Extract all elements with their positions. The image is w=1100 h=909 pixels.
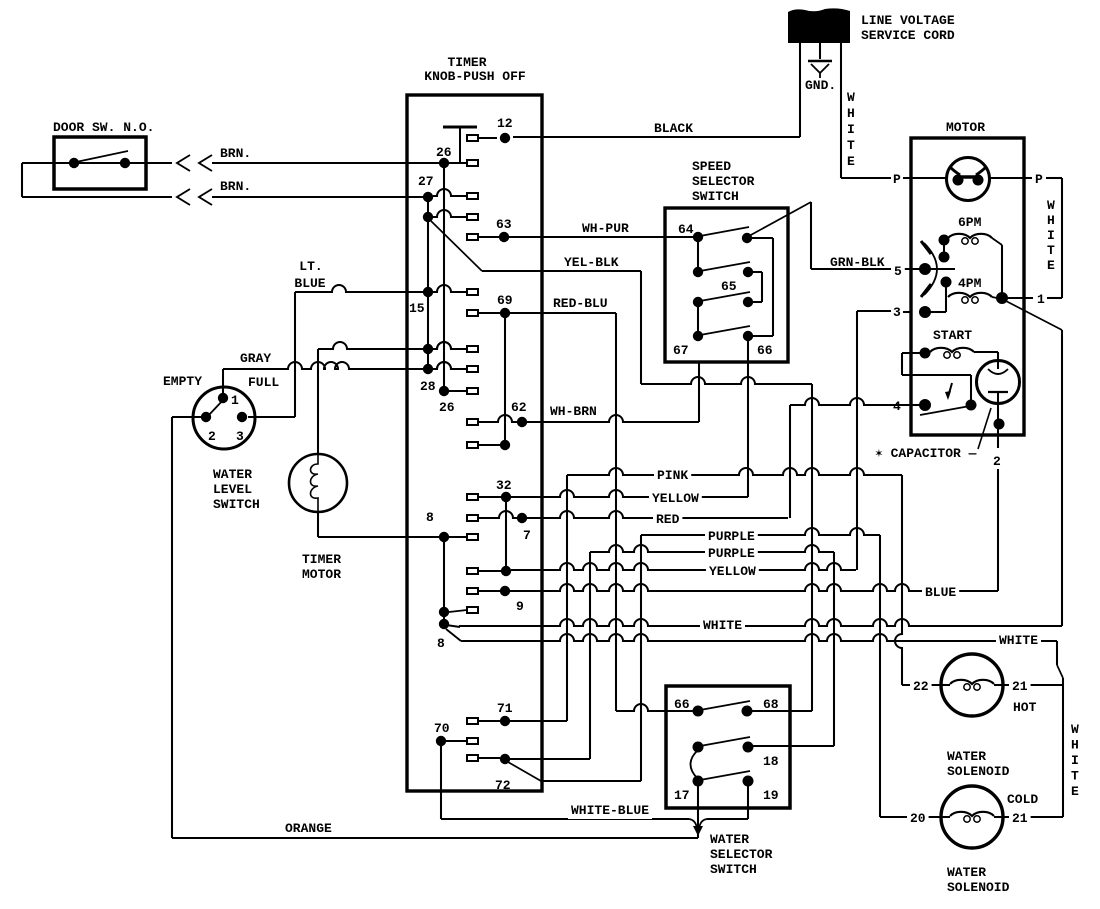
label motor pin P left xyxy=(893,172,901,187)
label pin 32 xyxy=(496,478,512,493)
motor protector contacts xyxy=(950,167,986,186)
wire 3 dash xyxy=(903,311,911,313)
svg-text:70: 70 xyxy=(434,721,450,736)
wire 2 lead xyxy=(997,429,999,448)
timer node 32 xyxy=(501,492,511,502)
label BLACK xyxy=(654,121,693,136)
wire diagonal to YEL-BLK xyxy=(431,221,482,271)
svg-text:4: 4 xyxy=(893,399,901,414)
svg-text:SELECTOR: SELECTOR xyxy=(710,847,773,862)
wire WHITE-BLUE drop xyxy=(440,746,442,819)
svg-text:71: 71 xyxy=(497,701,513,716)
svg-text:22: 22 xyxy=(913,679,929,694)
svg-text:19: 19 xyxy=(763,788,779,803)
motor speed selector arc xyxy=(921,241,937,297)
svg-text:17: 17 xyxy=(674,788,690,803)
label pin 22 xyxy=(910,678,932,695)
speed selector blade row3 xyxy=(700,292,750,301)
svg-text:HOT: HOT xyxy=(1013,700,1037,715)
svg-text:2: 2 xyxy=(208,429,216,444)
speed selector blade row2 xyxy=(700,262,750,271)
svg-text:6PM: 6PM xyxy=(958,215,982,230)
wire PURPLE1 riser xyxy=(640,535,642,781)
svg-text:I: I xyxy=(847,122,855,137)
label pin 66 xyxy=(757,343,773,358)
label pin 71 xyxy=(497,701,513,716)
wire PINK row xyxy=(567,468,902,475)
wire terminal to node 32 xyxy=(478,496,501,498)
capacitor straight plate xyxy=(988,391,1008,393)
wire row 711 right xyxy=(752,710,812,712)
wire node217 to terminal xyxy=(433,210,467,217)
wire WHITE1 row xyxy=(459,619,1062,626)
label pin 12 xyxy=(497,116,513,131)
label WHITE 1 xyxy=(700,617,745,634)
label motor pin 5 xyxy=(891,263,905,280)
svg-text:WHITE-BLUE: WHITE-BLUE xyxy=(571,803,649,818)
label motor pin 4 xyxy=(890,398,904,415)
svg-text:20: 20 xyxy=(910,811,926,826)
water selector blade row2 xyxy=(700,737,750,746)
label WHITE-BLUE xyxy=(568,802,652,819)
wire BRN upper row xyxy=(22,162,444,164)
capacitor top lead xyxy=(997,353,999,369)
svg-text:66: 66 xyxy=(757,343,773,358)
wire terminal to node 69 xyxy=(478,312,500,314)
label WHITE vertical solenoid xyxy=(1071,722,1079,799)
svg-text:68: 68 xyxy=(763,697,779,712)
svg-text:E: E xyxy=(1047,258,1055,273)
svg-text:7: 7 xyxy=(523,528,531,543)
water selector blade row3 xyxy=(700,771,750,780)
label pin 9 xyxy=(516,599,524,614)
svg-text:BRN.: BRN. xyxy=(220,146,251,161)
svg-text:WH-PUR: WH-PUR xyxy=(582,221,629,236)
label WH-PUR xyxy=(582,221,629,236)
svg-text:KNOB-PUSH OFF: KNOB-PUSH OFF xyxy=(424,69,526,84)
wire PINK drop to solenoid 22 xyxy=(895,475,902,685)
wire node349 to terminal xyxy=(433,342,467,349)
label pin 21 hot xyxy=(1009,678,1031,695)
timer terminal contact y=610 xyxy=(467,607,478,613)
svg-text:21: 21 xyxy=(1012,811,1028,826)
timer node 8b xyxy=(439,607,449,617)
svg-text:EMPTY: EMPTY xyxy=(163,374,202,389)
label pin 8a xyxy=(426,510,434,525)
speed selector node row2 right xyxy=(743,267,753,277)
timer terminal contact y=313 xyxy=(467,310,478,316)
wire WHITE-BLUE row xyxy=(441,818,689,820)
motor protector circle xyxy=(947,158,990,201)
speed selector node row3 right xyxy=(743,297,753,307)
wire BLACK riser xyxy=(799,43,801,137)
svg-text:4PM: 4PM xyxy=(958,276,982,291)
wire YEL-BLK drop 2 xyxy=(811,384,813,711)
svg-text:12: 12 xyxy=(497,116,513,131)
speed selector blade row1 xyxy=(700,227,749,236)
svg-text:26: 26 xyxy=(439,400,455,415)
label pin 72 xyxy=(495,778,511,793)
wire LT.BLUE row xyxy=(295,285,467,292)
svg-text:✶ CAPACITOR —: ✶ CAPACITOR — xyxy=(875,446,977,461)
svg-text:I: I xyxy=(1071,753,1079,768)
svg-text:62: 62 xyxy=(511,400,527,415)
svg-text:W: W xyxy=(847,90,855,105)
wire WH-PUR row xyxy=(509,236,698,238)
timer motor coil xyxy=(311,455,319,512)
svg-text:E: E xyxy=(847,154,855,169)
door switch DOOR SW. N.O. label xyxy=(53,120,154,135)
motor node 4pm junction xyxy=(996,292,1008,304)
label WATER SOLENOID cold xyxy=(947,865,1010,895)
wire PURPLE1 row xyxy=(641,528,880,535)
label pin 68 xyxy=(763,697,779,712)
label PURPLE 2 xyxy=(705,545,758,562)
svg-text:H: H xyxy=(847,106,855,121)
wire 17 drop funnel xyxy=(697,786,699,838)
wire 72 diagonal xyxy=(508,762,541,781)
label YELLOW xyxy=(649,490,702,507)
wire YELLOW3 row xyxy=(511,563,856,570)
wire GRAY row xyxy=(223,362,467,369)
speed selector title xyxy=(692,159,755,204)
timer node 7 xyxy=(517,513,527,523)
wire contact 5 xyxy=(911,268,955,270)
label motor pin 2 xyxy=(993,454,1001,469)
door switch box xyxy=(54,137,146,189)
water selector node 18 xyxy=(743,742,754,753)
timer terminal contact y=196 xyxy=(467,193,478,199)
wire row 746 to node 18 xyxy=(748,745,834,747)
motor title xyxy=(946,120,985,135)
svg-text:PURPLE: PURPLE xyxy=(708,529,755,544)
timer terminal contact y=518 xyxy=(467,515,478,521)
wire BRN lower row xyxy=(22,196,428,198)
wire P row inside right xyxy=(989,177,1024,179)
timer node 9 xyxy=(500,586,510,596)
door switch contact right xyxy=(120,158,130,168)
label motor pin 3 xyxy=(893,305,901,320)
wire white2 corner drop xyxy=(1056,641,1058,665)
timer node 26 xyxy=(439,158,449,168)
svg-text:SWITCH: SWITCH xyxy=(710,862,757,877)
label motor pin 1 xyxy=(1037,292,1045,307)
svg-text:26: 26 xyxy=(436,145,452,160)
wire 69 down link xyxy=(504,318,506,440)
svg-text:SELECTOR: SELECTOR xyxy=(692,174,755,189)
wire 4 row xyxy=(790,398,911,405)
svg-text:YELLOW: YELLOW xyxy=(652,491,699,506)
label pin 20 xyxy=(907,810,929,827)
label pin 64 xyxy=(678,222,694,237)
speed selector bracket row23 xyxy=(753,272,762,302)
wire white solenoid bus xyxy=(1062,678,1064,817)
speed selector bracket right xyxy=(752,238,773,336)
speed selector node row3 left xyxy=(693,297,703,307)
wire row72 xyxy=(510,758,590,760)
wire 6PM end xyxy=(992,238,1002,293)
motor winding 4PM xyxy=(948,293,992,303)
timer knob T symbol xyxy=(443,127,477,163)
line voltage service cord plug xyxy=(788,8,850,43)
svg-text:SERVICE CORD: SERVICE CORD xyxy=(861,28,955,43)
wire RED row xyxy=(478,511,788,518)
svg-text:65: 65 xyxy=(721,279,737,294)
timer terminal contact y=758 xyxy=(467,755,478,761)
wire RED riser xyxy=(789,405,791,518)
label LINE VOLTAGE SERVICE CORD xyxy=(861,13,955,43)
wire row537 to node 8a xyxy=(318,536,444,538)
wire 32 down link xyxy=(505,502,507,566)
svg-text:P: P xyxy=(893,172,901,187)
timer node 69 xyxy=(500,308,510,318)
wire start end xyxy=(974,352,998,354)
timer terminal contact y=163 xyxy=(467,160,478,166)
wire white bus right upper xyxy=(1061,178,1063,298)
label BLUE xyxy=(922,584,959,601)
wire terminal to node72 xyxy=(478,757,500,759)
label PURPLE 1 xyxy=(705,528,758,545)
timer terminal contact y=741 xyxy=(467,738,478,744)
svg-text:PURPLE: PURPLE xyxy=(708,546,755,561)
wire row 711 left xyxy=(616,704,693,711)
svg-text:GRAY: GRAY xyxy=(240,351,271,366)
timer terminal contact y=292 xyxy=(467,289,478,295)
label EMPTY xyxy=(163,374,202,389)
label pin 28 xyxy=(420,379,436,394)
timer terminal contact y=391 xyxy=(467,388,478,394)
label LT. BLUE xyxy=(294,259,325,291)
label pin 18 xyxy=(763,754,779,769)
svg-text:RED-BLU: RED-BLU xyxy=(553,296,608,311)
svg-text:9: 9 xyxy=(516,599,524,614)
label GRN-BLK xyxy=(830,255,885,270)
water selector node row2 left xyxy=(693,742,704,753)
water selector node 68 xyxy=(742,706,753,717)
wire WHITE2 row xyxy=(461,634,1057,641)
wire 2 drop xyxy=(997,469,999,591)
svg-text:69: 69 xyxy=(497,293,513,308)
water selector node 66 xyxy=(693,706,704,717)
timer node 63 xyxy=(499,232,509,242)
svg-text:H: H xyxy=(1071,738,1079,753)
label pin 8b xyxy=(437,636,445,651)
svg-text:TIMER: TIMER xyxy=(302,552,341,567)
svg-text:32: 32 xyxy=(496,478,512,493)
wire RED-BLU drop xyxy=(615,313,617,711)
wire white diag xyxy=(1004,300,1062,330)
wire PINK riser xyxy=(566,475,568,721)
label WHITE 2 xyxy=(996,632,1041,649)
speed selector node 64 xyxy=(693,232,703,242)
wire 22 row xyxy=(902,684,941,686)
svg-text:SWITCH: SWITCH xyxy=(692,189,739,204)
timer terminal contact y=369 xyxy=(467,366,478,372)
wire bus8 vertical xyxy=(443,542,445,624)
water level node 2 xyxy=(201,412,211,422)
timer node y445 xyxy=(500,440,510,450)
wire GRN-BLK row xyxy=(811,268,911,270)
label 6PM xyxy=(958,215,982,230)
water selector title xyxy=(710,832,773,877)
wire YELLOW row xyxy=(511,490,748,497)
label pin 17 xyxy=(674,788,690,803)
timer node y349 xyxy=(423,344,433,354)
timer node 70 xyxy=(436,736,446,746)
wire PURPLE2 riser xyxy=(589,552,591,759)
label WATER SOLENOID hot xyxy=(947,749,1010,779)
wire GRN-BLK drop xyxy=(810,202,812,269)
svg-text:T: T xyxy=(847,138,855,153)
label pin 70 xyxy=(434,721,450,736)
svg-text:BRN.: BRN. xyxy=(220,179,251,194)
funnel merge curves xyxy=(689,819,707,836)
wire YEL-BLK row 2 xyxy=(641,377,812,384)
timer node 72 xyxy=(500,754,510,764)
timer node 15 xyxy=(423,287,433,297)
wire water level 3 stub xyxy=(248,416,295,418)
wire 22 corner xyxy=(901,684,903,686)
wire P dash xyxy=(903,177,947,179)
wire BLACK row xyxy=(513,136,800,138)
wire 65 link down xyxy=(697,307,699,336)
svg-text:YELLOW: YELLOW xyxy=(709,564,756,579)
wire node70 to terminal xyxy=(446,740,467,742)
svg-text:SWITCH: SWITCH xyxy=(213,497,260,512)
svg-text:WHITE: WHITE xyxy=(703,618,742,633)
svg-text:T: T xyxy=(1071,769,1079,784)
wire PURPLE1 drop xyxy=(879,535,881,817)
motor node 4 right xyxy=(966,400,977,411)
timer node y571 xyxy=(501,566,511,576)
label motor pin P right xyxy=(1035,172,1043,187)
svg-text:28: 28 xyxy=(420,379,436,394)
wire terminal to node 12 xyxy=(478,137,497,139)
wire ORANGE row xyxy=(172,837,698,839)
wire node26b to terminal xyxy=(449,390,467,392)
timer terminal contact y=349 xyxy=(467,346,478,352)
label pin 15 xyxy=(409,301,425,316)
label pin 21 cold xyxy=(1009,810,1031,827)
water selector node 19 xyxy=(743,776,754,787)
wire YEL-BLK drop 1 xyxy=(640,271,642,384)
wire BLUE row xyxy=(510,584,998,591)
motor node 5 xyxy=(919,263,931,275)
wire 66 drop xyxy=(747,341,749,497)
motor node 6pm xyxy=(939,235,950,246)
svg-text:WHITE: WHITE xyxy=(999,633,1038,648)
label YEL-BLK xyxy=(564,255,619,270)
wire full riser from node1 xyxy=(222,369,224,394)
wire 3 stub xyxy=(930,311,946,313)
label pin 67 xyxy=(673,343,689,358)
timer motor circle xyxy=(289,454,347,512)
wire door switch left bracket xyxy=(21,163,23,197)
svg-text:H: H xyxy=(1047,213,1055,228)
svg-text:3: 3 xyxy=(893,305,901,320)
label pin 66b xyxy=(674,697,690,712)
svg-text:64: 64 xyxy=(678,222,694,237)
label pin 65 xyxy=(721,279,737,294)
timer node y217 xyxy=(423,212,433,222)
wire row781 xyxy=(541,780,641,782)
label COLD xyxy=(1007,792,1038,807)
label water level pin 3 xyxy=(236,429,244,444)
svg-text:SPEED: SPEED xyxy=(692,159,731,174)
svg-text:ORANGE: ORANGE xyxy=(285,821,332,836)
svg-text:PINK: PINK xyxy=(657,468,688,483)
label water level pin 1 xyxy=(231,393,239,408)
wire speed diagonal xyxy=(749,202,811,236)
wire white jog xyxy=(1057,665,1063,678)
svg-text:BLUE: BLUE xyxy=(294,276,325,291)
wire 1 to white bus xyxy=(1047,297,1062,299)
connector chevrons lower BRN wire xyxy=(177,189,212,205)
label RED-BLU xyxy=(553,296,608,311)
label HOT xyxy=(1013,700,1037,715)
wire BLUE corner riser xyxy=(997,590,999,592)
water selector box xyxy=(666,686,790,808)
svg-text:W: W xyxy=(1071,722,1079,737)
wire WHITE2 diagonal xyxy=(446,629,461,641)
speed selector node 66 xyxy=(743,331,753,341)
svg-text:GRN-BLK: GRN-BLK xyxy=(830,255,885,270)
label FULL xyxy=(248,375,279,390)
svg-text:DOOR SW. N.O.: DOOR SW. N.O. xyxy=(53,120,154,135)
timer node 62 xyxy=(517,417,527,427)
svg-text:1: 1 xyxy=(231,393,239,408)
wire RED-BLU row xyxy=(510,312,616,314)
timer terminal contact y=721 xyxy=(467,718,478,724)
wire bus 26 vertical xyxy=(443,168,445,391)
wire terminal to node 9 xyxy=(478,590,500,592)
svg-text:WATER: WATER xyxy=(213,467,252,482)
capacitor bottom lead xyxy=(997,392,999,424)
water level switch circle xyxy=(193,387,255,449)
svg-text:I: I xyxy=(1047,228,1055,243)
wire node27 to terminal xyxy=(433,189,467,196)
svg-text:YEL-BLK: YEL-BLK xyxy=(564,255,619,270)
wire 64 link down xyxy=(697,242,699,272)
wire YEL-BLK row xyxy=(482,270,641,272)
svg-text:8: 8 xyxy=(426,510,434,525)
label pin 63 xyxy=(496,217,512,232)
timer node y369 xyxy=(423,364,433,374)
label WATER LEVEL SWITCH xyxy=(213,467,260,512)
svg-text:WH-BRN: WH-BRN xyxy=(550,404,597,419)
timer box xyxy=(407,95,542,791)
timer terminal contact y=537 xyxy=(467,534,478,540)
timer node 26b xyxy=(439,386,449,396)
wire water level 2 stub xyxy=(172,416,201,418)
motor node start xyxy=(920,348,931,359)
svg-text:MOTOR: MOTOR xyxy=(302,567,341,582)
door switch blade xyxy=(76,151,128,162)
svg-text:WATER: WATER xyxy=(947,749,986,764)
water selector arc bracket xyxy=(691,751,698,778)
timer terminal contact y=422 xyxy=(467,419,478,425)
wire row71 xyxy=(478,720,567,722)
timer node 8a xyxy=(439,532,449,542)
wire WHITE service drop xyxy=(840,43,842,178)
svg-text:TIMER: TIMER xyxy=(447,55,486,70)
svg-text:1: 1 xyxy=(1037,292,1045,307)
wire terminal to node 63 xyxy=(478,236,499,238)
wire P row right xyxy=(1024,177,1032,179)
timer terminal contact y=445 xyxy=(467,442,478,448)
wire 4PM end xyxy=(992,297,997,298)
svg-text:FULL: FULL xyxy=(248,375,279,390)
